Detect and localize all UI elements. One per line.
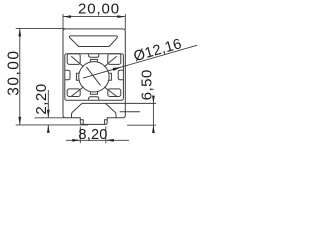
arrow 8,20 left (outside, pointing right)	[72, 139, 80, 142]
corner pocket TL	[67, 54, 80, 65]
corner pocket BR	[108, 89, 121, 97]
rib SW	[71, 87, 84, 97]
dimension 30,00 extension lines	[16, 28, 88, 125]
svg-text:8,20: 8,20	[78, 127, 107, 143]
rib NE	[104, 56, 116, 66]
mid-side pocket N	[89, 54, 99, 58]
dimension 2,20 line	[47, 90, 49, 133]
mid-side pocket W	[65, 70, 70, 79]
dimension 30,00 line	[19, 28, 21, 125]
svg-text:6,50: 6,50	[138, 69, 155, 100]
arrow 6,50 bottom	[152, 125, 155, 133]
middle chamber outline	[65, 54, 124, 101]
arrow 30,00 top	[18, 28, 21, 36]
bore tooth N	[90, 59, 97, 62]
corner pocket TR	[108, 54, 121, 65]
dimension 6,50 line	[152, 96, 154, 134]
rib SE	[104, 87, 117, 97]
central castellated bore	[79, 62, 109, 92]
bore tooth W	[76, 73, 79, 80]
svg-text:Ø12,16: Ø12,16	[132, 36, 184, 65]
svg-text:2,20: 2,20	[33, 83, 50, 114]
top trapezoid chamber	[69, 36, 117, 47]
dimension 8,20 line	[66, 139, 129, 141]
leader line Ø12,16 with underline	[83, 45, 197, 78]
pedestal chamfer left	[72, 103, 83, 117]
pedestal chamfer right	[106, 103, 117, 117]
arrow 8,20 right (outside, pointing left)	[106, 139, 114, 142]
dimension 6,50 extension lines	[127, 124, 156, 126]
arrow 20,00 left	[63, 15, 71, 18]
dimension 2,20 extension line	[35, 117, 65, 119]
arrow 2,20 lower (outside, pointing up)	[47, 125, 50, 133]
centerline mark through bore	[86, 67, 100, 86]
dimension 20,00 line	[63, 16, 125, 18]
corner pocket BL	[67, 89, 80, 97]
svg-text:30,00: 30,00	[5, 49, 22, 95]
arrow 2,20 upper (outside, pointing down)	[47, 110, 50, 118]
bore tooth S	[90, 92, 97, 95]
arrow leader Ø12,16	[113, 67, 122, 71]
mid-side pocket E	[118, 70, 123, 79]
mid-side pocket S	[89, 97, 99, 101]
dimension 20,00 extension lines	[63, 14, 125, 30]
stray shoulder line right	[120, 111, 140, 113]
arrow 6,50 top	[152, 96, 155, 104]
slot mouth wall right	[105, 120, 107, 124]
bottom pedestal top face + 6,50 top extension	[82, 102, 156, 104]
bore tooth E	[109, 73, 112, 80]
slot mouth wall left	[81, 120, 84, 124]
profile outer outline	[63, 29, 125, 125]
arrow 30,00 bottom	[18, 117, 21, 125]
svg-text:20,00: 20,00	[78, 0, 120, 17]
dimension 8,20 extension lines	[80, 127, 106, 144]
rib NW	[71, 56, 83, 66]
arrow 20,00 right	[117, 15, 125, 18]
